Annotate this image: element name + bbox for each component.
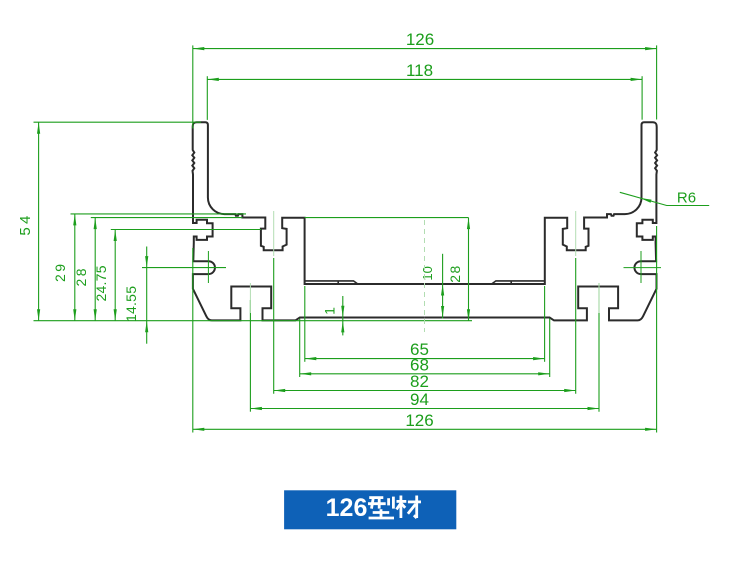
title glyph 型	[368, 497, 394, 518]
ext line 24.75	[111, 229, 261, 231]
centerline bottom slot right	[598, 283, 600, 313]
dim 68 bottom	[300, 355, 550, 375]
bottom ext 65 left	[304, 286, 306, 362]
keyhole centerline horizontal right	[624, 267, 662, 269]
svg-text:29: 29	[52, 264, 68, 282]
svg-text:28: 28	[447, 265, 463, 282]
ext line 28 left	[91, 217, 243, 219]
dim 14.55	[123, 247, 148, 344]
dim 1	[322, 296, 345, 335]
bottom ext 94 left	[249, 300, 251, 412]
svg-text:10: 10	[420, 266, 435, 280]
dim 126 top extension lines	[193, 45, 657, 128]
dim 10	[420, 254, 444, 319]
ext line 54 top	[34, 121, 202, 123]
dim 28 left	[73, 218, 97, 321]
bottom ext 65 right	[544, 286, 546, 362]
svg-text:82: 82	[410, 372, 429, 391]
dim 24.75	[93, 230, 117, 321]
svg-text:126: 126	[326, 494, 368, 522]
title glyph 材	[397, 496, 422, 519]
bottom ext 126 left	[192, 248, 194, 433]
ext line common bottom	[34, 320, 473, 322]
bottom ext 94 right	[598, 283, 600, 412]
svg-text:1: 1	[322, 307, 338, 315]
dim 29	[52, 214, 77, 321]
ext line 29	[71, 213, 247, 215]
profile outline right half (mirror)	[425, 122, 657, 320]
dim 94 bottom	[250, 390, 599, 410]
bottom ext 68 left	[299, 319, 301, 378]
dim 28 middle	[447, 218, 470, 321]
dim 126 top	[193, 30, 657, 50]
dim 118	[207, 61, 642, 81]
svg-text:R6: R6	[677, 189, 696, 206]
centerline slot gap right	[575, 211, 577, 256]
ext line 28 inner	[305, 217, 469, 219]
bottom ext 82 right	[575, 258, 577, 394]
dim 65 bottom	[305, 340, 545, 360]
svg-text:24.75: 24.75	[93, 265, 109, 301]
dim 82 bottom	[274, 372, 576, 392]
keyhole centerline vertical left	[207, 251, 209, 283]
svg-text:14.55: 14.55	[123, 286, 139, 322]
svg-text:126: 126	[405, 411, 433, 430]
dim 118 extension lines	[207, 76, 642, 120]
dim 54	[17, 122, 40, 321]
keyhole centerline vertical right	[640, 251, 642, 283]
ext line 14.55 / keyhole centerline left	[142, 267, 226, 269]
bottom ext 82 left	[273, 258, 275, 394]
centerline bottom slot left	[249, 283, 251, 313]
R6 leader	[620, 189, 709, 206]
centerline slot gap left	[273, 211, 275, 256]
blue title bar	[284, 490, 456, 529]
svg-text:54: 54	[17, 216, 34, 236]
bottom ext 126 right	[656, 226, 658, 433]
svg-text:94: 94	[410, 390, 429, 409]
floor pad line left	[305, 281, 358, 284]
dim 126 bottom	[193, 411, 657, 431]
centerline profile middle	[424, 220, 426, 332]
svg-text:118: 118	[406, 61, 433, 80]
bottom ext 68 right	[549, 319, 551, 378]
svg-text:126: 126	[406, 30, 434, 49]
profile outline left half	[192, 122, 424, 320]
